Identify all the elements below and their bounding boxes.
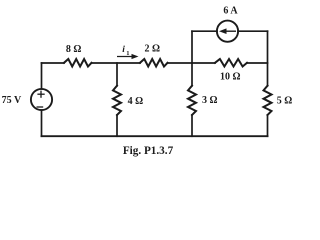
svg-text:6 A: 6 A [223,5,238,16]
svg-text:3 Ω: 3 Ω [202,95,218,106]
svg-text:i: i [122,45,125,55]
svg-text:Fig. P1.3.7: Fig. P1.3.7 [123,145,174,157]
svg-text:4 Ω: 4 Ω [128,96,144,107]
svg-text:2 Ω: 2 Ω [145,44,161,55]
svg-text:8 Ω: 8 Ω [66,44,82,55]
svg-text:1: 1 [126,50,129,57]
svg-text:5 Ω: 5 Ω [277,95,293,106]
svg-text:10 Ω: 10 Ω [220,72,241,83]
svg-text:75 V: 75 V [2,95,22,106]
